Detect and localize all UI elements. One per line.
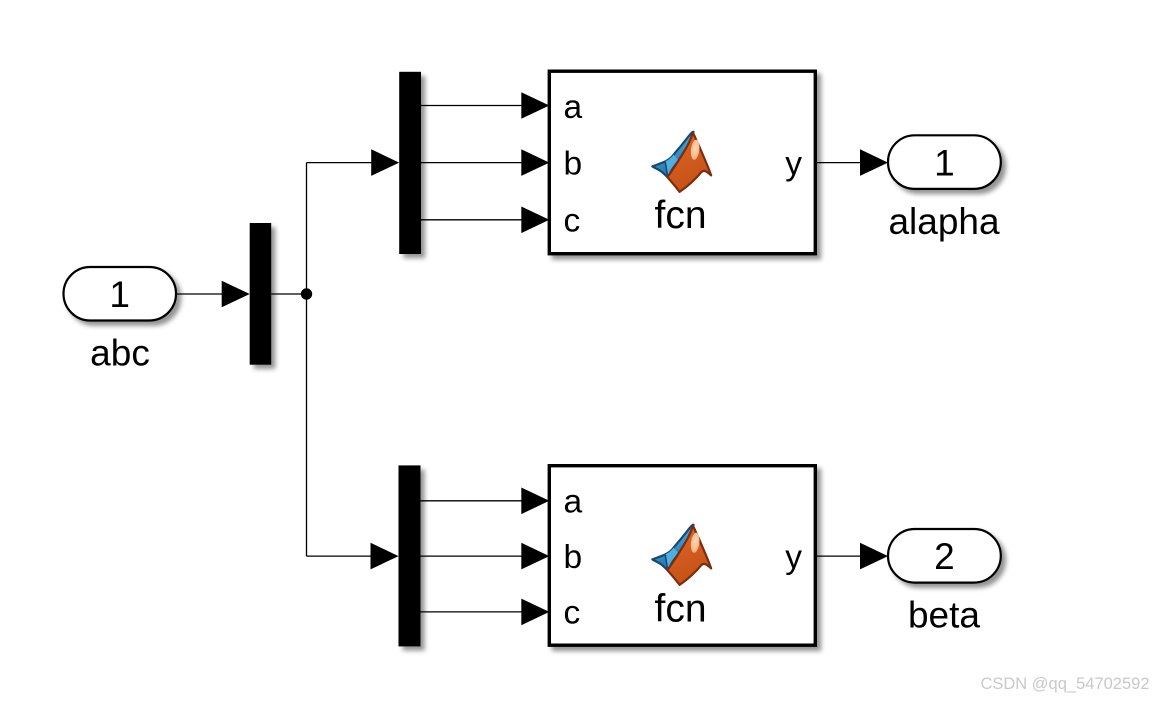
demux D1 (vertical bar) xyxy=(399,72,421,254)
wire D2 out c xyxy=(421,611,524,613)
junction node dot xyxy=(301,288,312,299)
wire branch down to demux D2 xyxy=(307,555,373,557)
inport block In1 "1" xyxy=(64,267,177,321)
arrowhead into demux D2 xyxy=(371,543,399,570)
svg-text:beta: beta xyxy=(908,595,980,636)
svg-text:c: c xyxy=(564,202,581,239)
wire D1 out b xyxy=(421,162,523,164)
wire mux M1 to junction xyxy=(271,293,306,295)
svg-text:fcn: fcn xyxy=(654,588,706,631)
arrowhead into demux D1 xyxy=(371,149,399,176)
svg-text:2: 2 xyxy=(934,536,955,577)
wire D1 out a xyxy=(421,105,523,107)
demux D2 (vertical bar) xyxy=(399,465,421,646)
wire inport to mux M1 xyxy=(177,293,225,295)
svg-text:1: 1 xyxy=(934,142,955,183)
svg-text:alapha: alapha xyxy=(888,201,1000,242)
svg-text:1: 1 xyxy=(109,274,130,315)
wire U2 y to outport 2 xyxy=(815,555,861,557)
mux M1 (vertical bar) xyxy=(250,223,272,365)
arrowhead c into U2 xyxy=(521,599,549,626)
vertical branch wire xyxy=(306,163,308,556)
arrowhead b into U2 xyxy=(521,543,549,570)
arrowhead into mux M1 xyxy=(222,281,250,308)
svg-text:y: y xyxy=(785,145,802,182)
MATLAB Function block U1 xyxy=(549,71,815,254)
svg-text:c: c xyxy=(564,594,581,631)
arrowhead a into U1 xyxy=(521,92,549,119)
wire branch up to demux D1 xyxy=(307,162,374,164)
arrowhead b into U1 xyxy=(521,149,549,176)
arrowhead a into U2 xyxy=(521,488,549,515)
svg-text:fcn: fcn xyxy=(654,194,706,237)
outport Out1 "1" xyxy=(888,135,1001,189)
wire D2 out b xyxy=(421,555,524,557)
svg-text:y: y xyxy=(785,539,802,576)
outport Out2 "2" xyxy=(888,529,1001,583)
arrowhead c into U1 xyxy=(521,207,549,234)
svg-text:a: a xyxy=(564,89,583,126)
wire D1 out c xyxy=(421,219,523,221)
svg-text:abc: abc xyxy=(90,333,150,374)
svg-text:a: a xyxy=(564,484,583,521)
svg-text:CSDN @qq_54702592: CSDN @qq_54702592 xyxy=(980,675,1149,693)
svg-text:b: b xyxy=(564,539,583,576)
svg-text:b: b xyxy=(564,145,583,182)
arrowhead into outport 1 xyxy=(860,149,888,176)
wire D2 out a xyxy=(421,500,524,502)
arrowhead into outport 2 xyxy=(860,543,888,570)
wire U1 y to outport 1 xyxy=(815,162,861,164)
MATLAB Function block U2 xyxy=(549,466,815,646)
